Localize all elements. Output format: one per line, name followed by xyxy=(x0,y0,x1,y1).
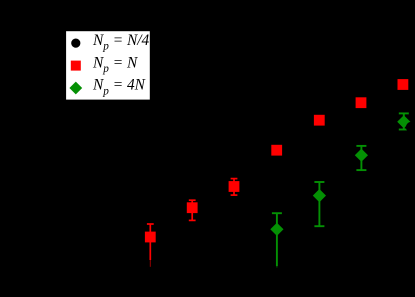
marker R7 xyxy=(398,79,409,90)
marker R2 xyxy=(187,202,198,213)
marker G1 xyxy=(270,223,283,236)
marker G3 xyxy=(355,149,368,162)
marker R3 xyxy=(229,181,240,192)
errorbar G3 xyxy=(360,146,362,170)
errorbar G2 xyxy=(318,182,320,226)
legend marker: red square (N_p = N) xyxy=(71,61,81,71)
errorbar G1 xyxy=(276,213,278,266)
marker G4 xyxy=(397,115,410,128)
errorbar R1 xyxy=(149,224,151,260)
errorbar R2 xyxy=(191,200,193,220)
series N_p = N : red squares with error bars xyxy=(147,179,238,267)
legend box xyxy=(65,30,151,100)
occluding black circle (N_p = N/4 marker) over diamond G4 xyxy=(406,122,415,133)
marker R1 xyxy=(145,232,156,243)
series N_p = 4N : green diamonds with error bars xyxy=(272,113,409,267)
marker R4 xyxy=(271,145,282,156)
legend marker: black circle (N_p = N/4) xyxy=(71,39,80,48)
marker G2 xyxy=(313,189,326,202)
errorbar G4 xyxy=(403,113,405,129)
marker R5 xyxy=(314,115,325,126)
errorbar R3 xyxy=(233,179,235,196)
legend marker: green diamond (N_p = 4N) xyxy=(69,82,82,95)
marker R6 xyxy=(356,97,367,108)
